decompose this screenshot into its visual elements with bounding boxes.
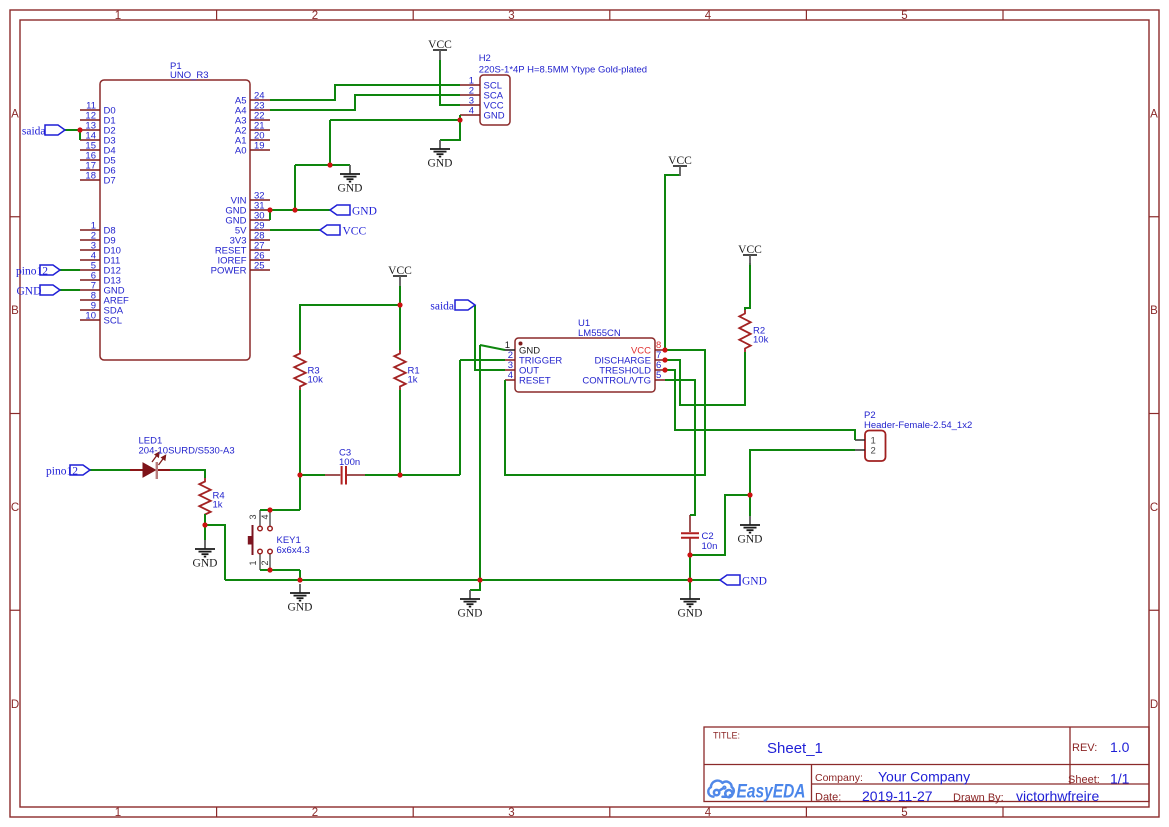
wire KEY1 to C3 node — [299, 475, 301, 510]
svg-text:Your Company: Your Company — [878, 769, 970, 785]
H2 pin 3 VCC — [460, 96, 504, 112]
U1 pin 1 GND — [505, 340, 541, 357]
junction at 400,305 — [397, 302, 402, 307]
svg-text:100n: 100n — [339, 457, 360, 468]
P1 pin 18 D7 — [80, 171, 116, 187]
P1 pin 15 D4 — [80, 141, 116, 157]
wire C3 left lead wire — [300, 474, 325, 476]
svg-text:4: 4 — [260, 514, 270, 519]
junction at 205,525 — [202, 522, 207, 527]
svg-text:saida: saida — [430, 301, 454, 313]
wire U1 pin8 VCC to RESET — [505, 350, 705, 475]
svg-text:4: 4 — [508, 370, 513, 381]
wire C2 ground stub — [689, 580, 691, 590]
U1 pin 8 VCC — [631, 340, 665, 357]
svg-text:RESET: RESET — [519, 376, 551, 387]
wire C3 node to TRIGGER riser — [400, 474, 460, 476]
net flag saida at P1 D2 — [22, 125, 65, 138]
P1 pin 14 D3 — [80, 131, 116, 147]
wire VCC to R2 top — [745, 263, 750, 310]
wire R1 bottom to C3 node — [399, 390, 401, 475]
wire A4 to H2 SCA — [270, 95, 460, 110]
ground H2 — [428, 140, 453, 170]
P1 pin 12 D1 — [80, 111, 116, 127]
junction at 270,510 — [267, 507, 272, 512]
ground KEY1 — [288, 584, 313, 614]
junction at 270,210 — [267, 207, 272, 212]
svg-text:A0: A0 — [235, 146, 247, 157]
junction at 460,120 — [457, 117, 462, 122]
wire saida to P1 pin13 D2 — [65, 129, 80, 131]
wire R4 bottom to ground bus — [205, 525, 225, 580]
svg-text:204-10SURD/S530-A3: 204-10SURD/S530-A3 — [139, 446, 235, 457]
svg-text:2: 2 — [871, 446, 876, 457]
frame column numbers top — [115, 10, 908, 22]
wire VCC stem to node — [399, 286, 401, 305]
svg-text:C: C — [11, 502, 19, 514]
svg-text:5: 5 — [901, 10, 907, 22]
P1 pin 19 A0 — [235, 141, 270, 157]
P1 pin 31 GND — [225, 201, 270, 217]
svg-text:2: 2 — [312, 807, 318, 819]
svg-text:10k: 10k — [308, 375, 324, 386]
P1 pin 32 VIN — [231, 191, 270, 207]
net flag GND at P1 pin7 — [17, 285, 61, 298]
P2 pin 2 — [855, 446, 876, 457]
connector H2 body — [480, 75, 510, 125]
P1 pin 22 A3 — [235, 111, 270, 127]
P1 pin 1 D8 — [80, 221, 116, 237]
connector P2 body — [865, 431, 886, 462]
svg-text:2019-11-27: 2019-11-27 — [862, 788, 933, 804]
LED LED1 204-10SURD/S530-A3 — [130, 436, 235, 480]
svg-text:3: 3 — [508, 10, 514, 22]
junction at 300,580 — [297, 577, 302, 582]
svg-text:2: 2 — [312, 10, 318, 22]
svg-text:VCC: VCC — [343, 226, 367, 238]
wire pino12 to LED anode — [90, 469, 130, 471]
svg-text:LM555CN: LM555CN — [578, 328, 621, 339]
U1 pin 1 marker dot — [519, 342, 523, 346]
power flag VCC U1 pin8 — [668, 155, 692, 176]
svg-text:1: 1 — [115, 807, 121, 819]
P1 pin 20 A1 — [235, 131, 270, 147]
svg-text:Drawn By:: Drawn By: — [953, 792, 1004, 804]
svg-text:B: B — [1150, 305, 1158, 317]
resistor R2 10k — [739, 310, 768, 352]
svg-text:1: 1 — [115, 10, 121, 22]
wire GND net horizontal y120 to H2 pin4 — [330, 119, 460, 121]
P1 pin 21 A2 — [235, 121, 270, 137]
P1 pin 7 GND — [80, 281, 125, 297]
svg-text:B: B — [11, 305, 19, 317]
wire R4 GND stub — [204, 525, 206, 540]
svg-text:10n: 10n — [702, 541, 718, 552]
ground center bus — [458, 590, 483, 620]
junction at 690,580 — [687, 577, 692, 582]
svg-text:1k: 1k — [408, 375, 418, 386]
U1 pin 5 CONTROL/VTG — [582, 370, 665, 387]
IC U1 LM555CN body — [515, 338, 655, 392]
capacitor C2 10n — [681, 515, 717, 555]
junction at 80,130 — [77, 127, 82, 132]
U1 pin 3 OUT — [505, 360, 539, 377]
wire TRIGGER horizontal — [460, 359, 505, 361]
wire LED cathode to R4 top — [170, 470, 205, 478]
svg-text:4: 4 — [469, 106, 474, 117]
wire GND net horizontal y165 — [295, 164, 350, 166]
title block border — [704, 727, 1149, 802]
U1 pin 2 TRIGGER — [505, 350, 562, 367]
svg-text:1k: 1k — [213, 500, 223, 511]
junction at 270,570 — [267, 567, 272, 572]
P1 pin 25 POWER — [211, 261, 270, 277]
wire GND net riser x295 — [294, 165, 296, 210]
wire A5 to H2 SCL — [270, 85, 460, 100]
svg-text:GND: GND — [428, 158, 453, 170]
capacitor C3 100n — [325, 448, 365, 485]
net flag pino12 at P1 D12 — [16, 265, 60, 278]
P1 pin 10 SCL — [80, 311, 122, 327]
junction at 300,475 — [297, 472, 302, 477]
P1 pin 28 3V3 — [230, 231, 270, 247]
junction at 665,350 — [662, 347, 667, 352]
wire pino12 flag to P1 pin5 D12 — [60, 269, 80, 271]
wire U1 CONTROL to C2 top — [665, 380, 695, 515]
wire KEY1 top bar — [260, 509, 300, 511]
svg-text:25: 25 — [254, 261, 265, 272]
H2 pin 2 SCA — [460, 86, 504, 102]
junction at 665,360 — [662, 357, 667, 362]
wire TRIGGER riser — [459, 360, 461, 475]
connector P1 UNO_R3 body — [100, 80, 250, 360]
svg-text:2: 2 — [260, 560, 270, 565]
svg-text:5: 5 — [901, 807, 907, 819]
power flag VCC R2 — [738, 244, 762, 265]
svg-text:Date:: Date: — [815, 792, 841, 804]
svg-text:10k: 10k — [753, 335, 769, 346]
svg-text:5: 5 — [656, 370, 661, 381]
P1 pin 27 RESET — [215, 241, 270, 257]
svg-text:D: D — [11, 699, 19, 711]
junction at 480,580 — [477, 577, 482, 582]
wire U1 pin1 GND diagonal — [480, 345, 505, 350]
P1 pin 24 A5 — [235, 91, 270, 107]
wire P1 GND31 to GND30 jumper — [269, 210, 271, 220]
svg-text:pino12: pino12 — [46, 466, 78, 478]
svg-text:GND: GND — [484, 111, 505, 122]
resistor R4 1k — [199, 478, 224, 518]
svg-text:3: 3 — [248, 514, 258, 519]
P1 pin 30 GND — [225, 211, 270, 227]
wire GND flag to P1 pin7 GND — [60, 289, 80, 291]
P1 pin 5 D12 — [80, 261, 121, 277]
svg-text:EasyEDA: EasyEDA — [737, 782, 806, 803]
U1 pin 7 DISCHARGE — [595, 350, 665, 367]
svg-text:victorhwfreire: victorhwfreire — [1016, 788, 1099, 804]
svg-text:1/1: 1/1 — [1110, 771, 1130, 787]
P1 pin 9 SDA — [80, 301, 124, 317]
svg-text:6x6x4.3: 6x6x4.3 — [277, 545, 310, 556]
wire saida2 to OUT — [475, 305, 505, 370]
svg-text:GND: GND — [338, 183, 363, 195]
svg-text:UNO_R3: UNO_R3 — [170, 70, 209, 81]
wire VCC to H2 VCC pin3 — [440, 60, 460, 105]
svg-text:A: A — [1150, 109, 1158, 121]
P2 pin 1 — [855, 436, 876, 447]
svg-text:saida: saida — [22, 126, 46, 138]
wire R3 bottom to C3 node — [299, 390, 301, 475]
svg-text:GND: GND — [742, 576, 767, 588]
wire C2 bottom to ground bus — [689, 555, 691, 580]
wire GND net riser x330 — [329, 120, 331, 165]
svg-text:GND: GND — [288, 602, 313, 614]
svg-text:SCL: SCL — [104, 316, 122, 327]
pushbutton KEY1 6x6x4.3 — [248, 510, 310, 570]
power flag VCC top H2 — [428, 39, 452, 60]
svg-text:GND: GND — [352, 206, 377, 218]
svg-text:pino12: pino12 — [16, 266, 48, 278]
svg-text:Header-Female-2.54_1x2: Header-Female-2.54_1x2 — [864, 420, 972, 431]
svg-text:4: 4 — [705, 10, 712, 22]
svg-text:Company:: Company: — [815, 772, 863, 784]
P1 pin 3 D10 — [80, 241, 121, 257]
svg-text:GND: GND — [458, 608, 483, 620]
wire P2 pin2 to GND net — [750, 450, 855, 495]
svg-text:TITLE:: TITLE: — [713, 731, 740, 741]
resistor R3 10k — [294, 350, 323, 390]
svg-text:D: D — [1150, 699, 1158, 711]
frame row letters right — [1150, 109, 1158, 712]
net flag GND at P1 GND31 — [330, 205, 377, 218]
resistor R1 1k — [394, 350, 419, 390]
wire P1 GND31 to GND net flag — [270, 209, 330, 211]
svg-text:GND: GND — [193, 558, 218, 570]
svg-text:POWER: POWER — [211, 266, 247, 277]
wire H2 pin4 stub — [459, 115, 461, 120]
P1 pin 6 D13 — [80, 271, 121, 287]
svg-text:10: 10 — [85, 311, 96, 322]
ground P2 — [738, 516, 763, 546]
svg-text:19: 19 — [254, 141, 265, 152]
ground C2 — [678, 590, 703, 620]
wire U1 TRESHOLD to P2 pin1 — [665, 370, 855, 440]
net flag GND at ground bus — [720, 575, 767, 588]
wire C3 right to R1 node — [365, 474, 400, 476]
P1 pin 23 A4 — [235, 101, 270, 117]
EasyEDA logo cloud icon — [708, 781, 734, 798]
net flag pino12 at LED1 — [46, 465, 90, 478]
svg-text:REV:: REV: — [1072, 742, 1097, 754]
frame row letters left — [11, 109, 19, 712]
wire VCC to U1 pin8 — [665, 175, 680, 350]
svg-text:H2: H2 — [479, 53, 491, 64]
junction at 690,555 — [687, 552, 692, 557]
U1 pin 4 RESET — [505, 370, 551, 387]
svg-text:C: C — [1150, 502, 1158, 514]
wire ground bus GND stub — [470, 580, 480, 590]
net flag VCC at P1 5V — [320, 225, 366, 238]
P1 pin 17 D6 — [80, 161, 116, 177]
P1 pin 13 D2 — [80, 121, 116, 137]
wire VCC node to R1 top — [399, 305, 401, 350]
wire R4 bottom lead wire — [204, 514, 206, 525]
wire VCC node to R3 top — [300, 305, 400, 350]
svg-text:18: 18 — [85, 171, 96, 182]
U1 pin 6 TRESHOLD — [599, 360, 665, 377]
svg-text:D7: D7 — [104, 176, 116, 187]
svg-text:4: 4 — [705, 807, 712, 819]
wire ground bus y580 — [225, 579, 720, 581]
wire P1 5V to VCC flag — [270, 229, 320, 231]
svg-text:GND: GND — [678, 608, 703, 620]
ground R4 — [193, 540, 218, 570]
P1 pin 2 D9 — [80, 231, 116, 247]
junction at 665,370 — [662, 367, 667, 372]
wire U1 DISCHARGE to R2 bottom — [665, 352, 745, 405]
frame column numbers bottom — [115, 807, 908, 819]
P1 pin 26 IOREF — [217, 251, 270, 267]
svg-text:CONTROL/VTG: CONTROL/VTG — [582, 376, 651, 387]
net flag saida at U1 OUT — [430, 300, 475, 313]
svg-text:GND: GND — [17, 286, 42, 298]
svg-text:Sheet:: Sheet: — [1068, 774, 1100, 786]
wire H2 GND drop — [440, 120, 460, 140]
junction at 750,495 — [747, 492, 752, 497]
junction at 330,165 — [327, 162, 332, 167]
power flag VCC middle R1 R3 — [388, 265, 412, 286]
svg-text:Sheet_1: Sheet_1 — [767, 740, 823, 757]
svg-text:1: 1 — [248, 560, 258, 565]
svg-text:3: 3 — [508, 807, 514, 819]
junction at 295,210 — [292, 207, 297, 212]
svg-text:220S-1*4P H=8.5MM Ytype Gold-p: 220S-1*4P H=8.5MM Ytype Gold-plated — [479, 65, 647, 76]
wire P1 pin13 to pin14 jumper — [79, 130, 81, 140]
wire U1 GND riser x480 — [479, 345, 481, 580]
wire P2 GND stub — [749, 495, 751, 516]
H2 pin 1 SCL — [460, 76, 502, 92]
P1 pin 11 D0 — [80, 101, 116, 117]
P1 pin 8 AREF — [80, 291, 129, 307]
svg-text:1.0: 1.0 — [1110, 739, 1130, 755]
junction at 400,475 — [397, 472, 402, 477]
ground near P1 — [338, 165, 363, 195]
svg-text:A: A — [11, 109, 19, 121]
svg-text:GND: GND — [738, 534, 763, 546]
wire KEY1 bottom bar — [260, 569, 300, 571]
H2 pin 4 GND — [460, 106, 505, 122]
P1 pin 4 D11 — [80, 251, 120, 267]
P1 pin 29 5V — [235, 221, 270, 237]
wire GND net to C2 bottom — [690, 495, 750, 555]
P1 pin 16 D5 — [80, 151, 116, 167]
wire KEY1 bottom to ground bus — [299, 570, 301, 580]
